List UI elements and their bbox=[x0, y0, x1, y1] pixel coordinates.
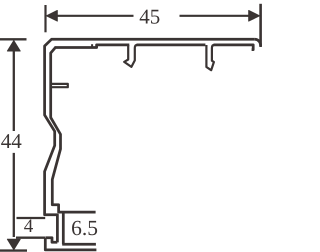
foot bottom plate outer: left lip face and bottom edge bbox=[45, 238, 96, 250]
dimension 44: dim line upper segment bbox=[13, 51, 15, 132]
channel floor with small step bbox=[62, 243, 96, 246]
foot bottom plate inner: channel floor and lip inner bbox=[46, 238, 58, 243]
svg-text:6.5: 6.5 bbox=[71, 216, 98, 240]
small tick on inner lid at x92 bbox=[91, 44, 93, 47]
dimension 44: dim line lower segment bbox=[13, 153, 15, 237]
dimension 4: top leader line bbox=[17, 217, 46, 219]
svg-text:45: 45 bbox=[139, 5, 160, 29]
inner lid line right of clip 2 and right end stub bbox=[214, 45, 254, 50]
inner lid line between clips bbox=[137, 44, 206, 47]
dimension 45: left extension tick bbox=[44, 5, 46, 32]
dimension 45: right arrowhead bbox=[249, 11, 260, 22]
dimension 45: dim line right segment bbox=[180, 15, 250, 17]
dimension 44: top extension tick bbox=[0, 38, 27, 40]
foot stem right face / channel closed end bbox=[62, 212, 65, 244]
dimension 45: right extension tick bbox=[259, 4, 262, 47]
inner wall shelf rib bbox=[52, 84, 68, 87]
profile lid right end curl bbox=[255, 39, 261, 46]
clip 2 (hanging barb, right) bbox=[206, 45, 214, 70]
profile outer contour: lid top, left chamfer, left wall with bump, foot stem bbox=[45, 39, 255, 242]
dimension 44: up arrowhead bbox=[7, 41, 20, 51]
profile inner contour: chamfer, inner wall with bump, foot steps, channel top bbox=[51, 48, 96, 213]
dimension 4: bottom leader line bbox=[16, 237, 45, 239]
dimension 44: bottom extension tick bbox=[0, 249, 27, 251]
profile inner lid line: left low segment with step at x96 bbox=[55, 45, 130, 48]
dimension 44: down arrowhead bbox=[7, 239, 20, 249]
svg-text:44: 44 bbox=[1, 129, 23, 153]
dimension 45: dim line left segment bbox=[57, 15, 134, 17]
svg-text:4: 4 bbox=[24, 216, 34, 237]
dimension 45: left arrowhead bbox=[47, 11, 58, 22]
clip 1 (hanging barb, left) bbox=[124, 45, 137, 67]
